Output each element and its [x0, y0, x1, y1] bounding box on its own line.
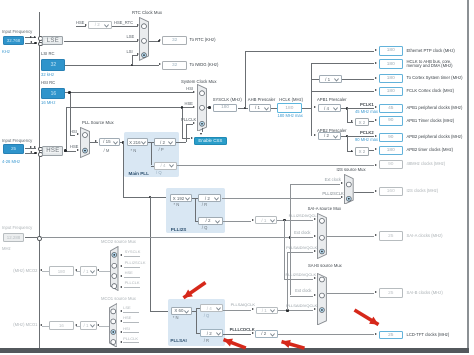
node I2S CKIN circle: [37, 236, 42, 241]
wire HSI arrow into system mux: [193, 91, 195, 93]
divider MCO1 /1: [80, 321, 98, 331]
wire APB2 out: [341, 135, 375, 138]
node HSE pin circle b: [38, 152, 43, 157]
wire MCO2 to pin: [42, 270, 49, 273]
wire HSI down to PLL mux: [69, 93, 72, 135]
divider Cortex timer /1: [319, 75, 342, 83]
node MCO2 value box 180: [49, 266, 74, 275]
node ext clock junction: [289, 236, 292, 239]
node MCO1 input HSE label: [123, 316, 131, 321]
wire /M out: [120, 141, 126, 144]
node HSE pin dot: [34, 152, 36, 154]
oscillator HSE: [42, 146, 63, 156]
wire PLL input down to PLLSAI: [149, 197, 152, 311]
wire PLLSAIQCLK: [223, 309, 251, 312]
wire HCLK out to bus: [302, 107, 311, 110]
wire MCO2 divider to value: [76, 270, 80, 273]
node PLLSAI *N label: [173, 316, 179, 321]
node MCO1 input HSI label: [123, 327, 130, 332]
node PLLI2S *N label: [174, 203, 180, 208]
node HSE CSS junction: [181, 106, 184, 109]
node Cortex system timer box 180: [379, 74, 404, 83]
divider APB2 prescaler /2: [318, 132, 341, 140]
node PLLSAI /Q label: [204, 314, 210, 319]
node SAI-B clocks box 25: [379, 288, 404, 298]
wire arrow into RTC divider: [85, 24, 87, 26]
node MCO1 pin label: [13, 323, 37, 328]
node 45 MHz max label: [355, 110, 378, 115]
wire left source rail: [38, 12, 41, 348]
node PLLSAIDIVQCLK net label (SAI-B): [286, 304, 317, 309]
wire to AHB bus box: [311, 62, 374, 65]
node LSI net label: [127, 50, 133, 55]
node Ext clock label (SAI-A): [294, 231, 310, 236]
wire arrow into APB1 prescaler: [314, 106, 316, 108]
divider LCD-TFT DIV /2: [255, 330, 278, 338]
wire PLLI2SDIVQCLK arrow into SAI-B mux: [314, 277, 316, 279]
wire X2 apb2 out: [369, 149, 374, 152]
wire arrow into To RTC box: [159, 39, 161, 41]
multiplier PLLSAI N = x60: [171, 307, 192, 315]
wire HSE pin arrow b: [34, 146, 36, 148]
wire PLLI2S into Q: [195, 220, 198, 223]
wire arrow down to Enable CSS: [200, 133, 202, 135]
node I2S CKIN input frequency 12.288: [3, 233, 24, 243]
node MCO2 input PLLCLK arrow: [120, 286, 122, 288]
mux RTC Clock Mux: [139, 17, 149, 61]
node PLL Source Mux title: [82, 121, 114, 126]
node APB1 peripheral clocks box 45 label: [407, 106, 463, 111]
wire PLLI2S Q out: [223, 220, 252, 223]
node PLLCLK net label: [181, 118, 196, 123]
divider PLL Q = /4: [154, 162, 177, 170]
node LSE pin dot: [34, 42, 36, 44]
wire HSE stub into RTC divider: [76, 25, 86, 28]
wire MCO2 arrow into divider: [97, 269, 99, 271]
wire into X2 apb2: [347, 150, 353, 153]
wire ext clock arrow into SAI-A mux: [314, 235, 316, 237]
mux SAI-B source Mux: [317, 273, 327, 325]
op-amp PLLI2S panel: [166, 188, 225, 233]
wire HSE pin arrow a: [30, 146, 32, 148]
node MCO2 input PLLI2SCLK label: [125, 261, 146, 266]
node PCLK1 junction: [346, 107, 349, 110]
node MCO1 value box 16: [49, 321, 74, 331]
wire PLLI2SDIVQCLK arrow into SAI-A mux: [314, 218, 316, 220]
node HSI RC title: [41, 81, 55, 86]
wire to FCLK box: [311, 90, 374, 93]
node HSI net label (system mux): [186, 87, 193, 92]
node RTC mux out junction: [158, 40, 161, 43]
node MCO2 input PLLI2SCLK stub: [124, 266, 140, 269]
divider APB1 prescaler /4: [318, 104, 341, 112]
wire up to Ethernet PTP: [244, 51, 247, 108]
wire SAI-A mux out: [327, 235, 374, 238]
wire N to P: [148, 141, 154, 144]
wire HSE pin in: [25, 147, 36, 150]
node HSE_RTC net label: [114, 21, 133, 26]
wire Ethernet PTP line: [245, 50, 374, 53]
multiplier APB2 timers X2: [355, 147, 369, 156]
node PCLK2 junction: [346, 135, 349, 138]
node MCO2 input PLLCLK stub: [124, 286, 140, 289]
node To IWDG label: [190, 63, 219, 68]
node MCO2 input SYSCLK arrow: [120, 254, 122, 256]
node PLLLCDCLK net label: [230, 328, 255, 333]
wire LSE pin in: [25, 36, 36, 39]
mux MCO1 source Mux: [109, 303, 118, 348]
wire LSI up to RTC mux: [131, 55, 134, 65]
node MCO2 input PLLCLK label: [125, 281, 140, 286]
node PLLI2SDIVQCLK net label (SAI-B): [286, 273, 317, 278]
wire into PLLSAI R: [196, 332, 200, 335]
wire ext clock down to SAI-B: [289, 237, 292, 295]
wire PLLSAI N out: [192, 310, 196, 313]
node MCO1 input LSE label: [123, 306, 131, 311]
divider PLLI2S DIVQ /1: [255, 216, 277, 224]
wire LSE pin arrow b: [34, 36, 36, 38]
wire MCO1 arrow into divider: [97, 324, 99, 326]
node /P label: [159, 148, 164, 153]
node MCO2 input HSE stub: [124, 276, 140, 279]
node APB2 peripheral clocks box 90 label: [407, 135, 463, 140]
node LSI RC title: [41, 52, 55, 57]
wire HSE pin out: [25, 152, 36, 155]
node Ext clock label (I2S): [325, 178, 341, 183]
wire PLLSAIDIVQCLK arrow into SAI-B mux: [314, 308, 316, 310]
op-amp PLLSAI panel: [168, 299, 226, 346]
wire MCO1 pin arrow: [40, 324, 42, 326]
wire system mux out: [207, 106, 209, 109]
wire arrow into I2S box: [375, 190, 377, 192]
wire ext clock arrow into I2S mux: [341, 182, 343, 184]
node /M label: [104, 149, 110, 154]
node HSI net label (PLL mux): [70, 130, 77, 135]
wire LSE pin arrow a: [30, 36, 32, 38]
node MCO1 input HSE stub: [123, 321, 140, 324]
node PLLSAI /R label: [204, 339, 209, 344]
node HCLK value box 180: [277, 103, 302, 112]
node HSI junction: [68, 91, 71, 94]
wire arrow into SYSCLK box: [209, 106, 211, 108]
wire I2S CKIN to rail: [25, 236, 37, 239]
node PLLI2SCLK net label: [322, 192, 343, 197]
node 4-26 MHz label: [2, 160, 20, 165]
node 48MHz clocks box label: [407, 162, 446, 167]
node SAI-A clocks box: [379, 231, 404, 241]
wire APB1 out: [341, 107, 375, 110]
node HCLK (MHz) label: [279, 98, 303, 103]
node Cortex system timer box 180 label: [407, 76, 463, 81]
wire arrow into FCLK box: [375, 89, 377, 91]
mux SAI-A source Mux: [317, 213, 327, 259]
mux MCO2 source Mux: [110, 246, 119, 291]
node SAI-B source Mux title: [308, 264, 342, 269]
op-amp Main PLL panel: [124, 132, 178, 177]
node To RTC label: [190, 38, 216, 43]
node MCO2 input HSE arrow: [120, 275, 122, 277]
wire PLLSAI DIVQ out: [278, 309, 313, 312]
node MCO1 input LSE stub: [123, 311, 140, 314]
node PLLI2S /R label: [202, 203, 207, 208]
node HSE input frequency 25: [3, 144, 24, 154]
node PLLSAI title: [170, 338, 186, 343]
node APB2 timer clocks box 180 label: [407, 148, 454, 153]
wire arrow into APB1 periph box: [375, 106, 377, 108]
node Ethernet PTP clock box 180 label: [407, 49, 455, 54]
wire PLLSAI R out: [223, 333, 251, 336]
wire PLLI2S N to R: [192, 197, 198, 200]
divider RTC HSE /2: [88, 21, 112, 29]
wire right panel border: [467, 0, 469, 349]
node LCD-TFT clocks box 25 label: [407, 333, 450, 338]
wire HSI arrow into PLL mux: [77, 133, 79, 135]
wire SYSCLK out: [238, 107, 249, 110]
node APB2 peripheral clocks box 90: [379, 133, 404, 142]
wire arrow into PLLI2S DIVQ: [252, 219, 254, 221]
divider PLLI2S Q = /2: [198, 217, 222, 225]
node SYSCLK junction a: [208, 106, 211, 109]
node MCO2 input HSE label: [125, 271, 133, 276]
node HSE net label (system mux): [185, 102, 193, 107]
wire arrow into APB2 periph box: [375, 135, 377, 137]
wire ext clock arrow into SAI-B mux: [314, 294, 316, 296]
wire PLLI2S N down to Q: [194, 198, 197, 221]
wire into X2 apb1: [347, 121, 353, 124]
wire bottom window bar: [0, 348, 469, 353]
wire arrow into X2 apb2: [351, 150, 353, 152]
node APB1 peripheral clocks box 45: [379, 104, 404, 113]
oscillator LSI RC 32: [41, 59, 65, 71]
wire arrow into SAI-A box: [375, 234, 377, 236]
node FCLK cortex box 180: [379, 87, 404, 96]
node PLLI2SDIVQ junction: [283, 219, 286, 222]
node MCO2 input PLLI2SCLK arrow: [120, 265, 122, 267]
wire ext clock up to I2S mux: [289, 184, 292, 238]
node HSE net label (PLL mux): [70, 145, 78, 150]
node System Clock Mux title: [181, 80, 217, 85]
node I2S clocks box 160: [379, 187, 404, 196]
node MCO1 input HSI arrow: [120, 331, 122, 333]
node KHz label: [2, 50, 10, 55]
wire LSE pin out: [25, 42, 36, 45]
wire I2S CKIN line: [40, 236, 313, 239]
wire PLLCLK arrow into system mux: [193, 122, 195, 124]
divider MCO2 /1: [80, 266, 98, 275]
node Input Frequency (I2S CKIN): [2, 226, 32, 231]
node Main PLL title: [129, 171, 149, 176]
wire N out down to Q: [150, 142, 153, 165]
divider PLLSAI R = /2: [200, 329, 223, 337]
wire HSE arrow into system mux: [193, 106, 195, 108]
wire P out: [176, 141, 186, 144]
wire to cortex timer divider: [311, 78, 318, 81]
node To RTC value box: [162, 36, 187, 45]
wire HSE_RTC arrow into mux: [137, 24, 139, 26]
node HSE RTC div label: [76, 21, 84, 26]
wire down to APB1 timer mult: [346, 108, 349, 122]
node MCO1 input PLLCLK arrow: [120, 341, 122, 343]
wire PLL input to PLLI2S: [123, 196, 170, 199]
wire RTC mux out: [149, 40, 159, 43]
node SYSCLK (MHz) label: [213, 98, 242, 103]
divider AHB prescaler /1: [249, 104, 272, 112]
wire PLLI2SCLK arrow into I2S mux: [341, 196, 343, 198]
wire PLL Q out to 48MHz box: [177, 164, 374, 167]
wire PLLSAIDIVQ up to SAI-A: [286, 252, 289, 311]
divider PLL /M = /15: [99, 138, 121, 146]
node Ethernet PTP junction: [244, 107, 247, 110]
wire LSI arrow into IWDG box: [159, 63, 161, 65]
node HSE junction: [64, 149, 67, 152]
wire arrow into 48MHz box: [375, 164, 377, 166]
wire into Q divider: [151, 165, 154, 168]
node PLLSAIDIVQ junction: [286, 309, 289, 312]
wire LCD clock to box: [278, 333, 375, 336]
wire arrow into APB2 prescaler: [314, 134, 316, 136]
node APB1 timer clocks box 90 label: [407, 119, 455, 124]
node I2S source Mux title: [337, 168, 366, 173]
multiplier APB1 timers X2: [355, 118, 369, 127]
node /Q label: [156, 171, 162, 176]
wire arrow into Ethernet PTP box: [375, 49, 377, 51]
divider PLLI2S R = /2: [198, 194, 221, 202]
wire PLLLCDCLK arrow into DIV: [252, 332, 254, 334]
wire PLLI2S DIVQ out: [277, 219, 313, 222]
wire PLLI2SDIVQ down to SAI-B: [283, 220, 286, 279]
wire arrow into PLLSAI DIVQ: [252, 308, 254, 310]
wire HSE arrow into PLL mux: [77, 149, 79, 151]
node PLLSAIDIVQCLK net label (SAI-A): [286, 246, 317, 251]
node 90 MHz max label: [355, 138, 378, 143]
node Input Frequency (HSE): [2, 139, 32, 144]
node Ext clock label (SAI-B): [295, 289, 311, 294]
node SAI-A source Mux title: [308, 207, 342, 212]
node MCO1 input PLLCLK label: [123, 337, 138, 342]
node I2S clocks box 160 label: [407, 189, 439, 194]
wire PLLSAI split: [195, 308, 198, 333]
wire HCLK vertical bus: [310, 63, 313, 135]
wire PLLCLK up: [185, 124, 188, 143]
node MCO1 source Mux title: [101, 297, 136, 302]
node Input Frequency (LSE): [2, 30, 32, 35]
wire MCO1 arrow into value box: [75, 324, 77, 326]
wire MCO1 to pin: [42, 325, 49, 328]
node LSE input frequency 32.768: [3, 36, 24, 45]
node 180 MHz max label: [278, 114, 303, 119]
divider PLLSAI Q = /4: [200, 304, 223, 312]
node MCO1 input HSI stub: [123, 331, 140, 334]
node 16 MHz label: [41, 101, 55, 106]
wire HSE pin arrow c: [30, 151, 32, 153]
node LCD-TFT clocks box 25: [379, 331, 404, 339]
node HCLK AHB box 180 label: [407, 60, 453, 70]
wire HSE up to system mux: [65, 107, 68, 150]
wire MCO1 divider to value: [76, 325, 80, 328]
wire arrow into HCLK AHB box: [375, 62, 377, 64]
node MCO2 input SYSCLK label: [125, 250, 141, 255]
wire arrow into Enable CSS: [191, 137, 193, 139]
node HSE pin circle a: [38, 147, 43, 152]
node MCO1 input LSE arrow: [120, 310, 122, 312]
wire HSE to system mux: [66, 106, 193, 109]
node Enable CSS button: [194, 137, 227, 145]
wire MCO1 mux out: [99, 325, 109, 328]
node MCO2 pin label: [13, 269, 37, 274]
wire MCO2 arrow into value box: [75, 269, 77, 271]
wire LSE to RTC mux: [64, 40, 139, 43]
wire HSI out to system mux: [65, 91, 192, 94]
node MCO1 input PLLCLK stub: [123, 341, 140, 344]
wire PLLCLK into system mux: [186, 123, 192, 126]
node *N label: [131, 149, 137, 154]
node PLLI2S /Q label: [202, 226, 208, 231]
node PLL input junction: [122, 141, 125, 144]
mux PLL Source Mux: [80, 127, 90, 158]
wire X2 apb1 out: [369, 120, 374, 123]
divider PLL P = /2: [154, 138, 176, 146]
node MHz label: [2, 247, 11, 252]
node SYSCLK value box 180: [213, 104, 238, 113]
wire cortex divider out: [342, 78, 375, 81]
wire arrow into X2 apb1: [351, 120, 353, 122]
wire HSE into CSS: [182, 137, 190, 140]
node LSE pin circle a: [38, 36, 43, 41]
multiplier PLLI2S N = x192: [170, 194, 193, 202]
node APB2 Prescaler title: [317, 129, 347, 134]
wire LSI into RTC mux: [132, 54, 138, 57]
wire HSE down to CSS: [181, 108, 184, 139]
node MCO1 input HSE arrow: [120, 320, 122, 322]
oscillator LSE: [42, 36, 63, 46]
node PLLI2SDIVQCLK net label (SAI-A): [289, 214, 320, 219]
wire I2S mux out: [354, 191, 374, 194]
node Ethernet PTP clock box 180: [379, 46, 404, 55]
wire down to APB2 timer mult: [346, 136, 349, 151]
wire PLLI2SDIVQ into SAI-B: [284, 278, 313, 281]
node PLLSAI feed junction: [149, 196, 152, 199]
node APB2 timer clocks box 180: [379, 146, 404, 155]
wire HSE out: [64, 150, 76, 153]
node APB1 timer clocks box 90: [379, 116, 404, 125]
wire HSI into PLL mux: [70, 134, 76, 137]
wire MCO2 pin arrow: [40, 269, 42, 271]
wire PLL input down: [122, 142, 125, 197]
wire AHB to HCLK: [271, 107, 277, 110]
node MCO2 input SYSCLK stub: [124, 255, 140, 258]
wire arrow into /M divider: [95, 140, 97, 142]
node AHB Prescaler title: [248, 98, 275, 103]
wire LSI arrow into RTC mux: [137, 53, 139, 55]
wire PLLI2SCLK to I2S mux: [222, 197, 341, 200]
node PLLSAIQCLK net label: [231, 303, 255, 308]
wire PLL input into PLLSAI: [150, 310, 171, 313]
wire PLL mux out: [90, 141, 98, 144]
wire RTC divider to mux: [112, 25, 139, 28]
node PCLK1 net label: [360, 103, 374, 108]
wire ext clock into SAI-B: [290, 295, 313, 298]
wire arrow into SAI-B box: [375, 291, 377, 293]
node 32 kHz label: [41, 73, 54, 78]
wire ext clock into I2S mux: [290, 183, 341, 186]
wire LSE arrow into RTC mux: [137, 39, 139, 41]
wire PLLSAIDIVQ into SAI-A: [287, 251, 313, 254]
node SAI-B clocks box 25 label: [407, 291, 443, 296]
node SAI-A clocks box label: [407, 234, 443, 239]
node 48MHz clocks box: [379, 160, 404, 169]
wire arrow into APB1 timer box: [375, 119, 377, 121]
oscillator HSI RC 16: [41, 88, 65, 100]
